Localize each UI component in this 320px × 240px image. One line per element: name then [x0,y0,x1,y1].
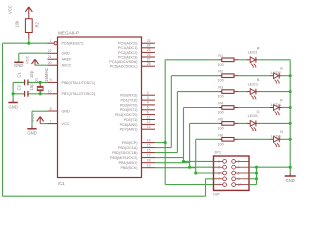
svg-text:GND: GND [14,63,23,68]
svg-text:14: 14 [147,138,151,142]
svg-text:27: 27 [147,57,151,61]
svg-text:G: G [256,109,259,114]
svg-text:LED2: LED2 [271,70,282,75]
svg-text:B: B [280,129,283,134]
pin 11 PD5(T1) [124,115,155,122]
pin 5 PD3(INT1) [120,106,155,113]
LED LED6 B [270,129,283,147]
pin 21 AREF [48,55,73,62]
svg-text:GND: GND [27,130,36,135]
svg-text:PB1(OC1A): PB1(OC1A) [118,146,137,150]
resistor R3 100 [218,86,239,99]
svg-text:PD5(T1): PD5(T1) [124,118,138,122]
svg-text:100: 100 [218,142,224,146]
pin 7 VCC [48,119,70,126]
node MOSI junction [182,160,185,163]
wire AVCC to VCC [35,64,48,66]
svg-text:24: 24 [147,44,151,48]
wire LED3 cathode to bus [258,91,291,93]
capacitor C2 15p [16,83,34,97]
svg-text:B: B [257,77,260,82]
wire MOSI tap to ISP pin1 [184,158,214,162]
wire PB5 to R6 row [155,139,219,167]
svg-text:C1: C1 [16,72,21,78]
pin 19 PB5(SCK) [120,164,155,171]
svg-text:100: 100 [218,126,224,130]
node bus junction row 4 [289,106,292,109]
svg-text:PC4(ADC4/SDA): PC4(ADC4/SDA) [109,60,137,64]
svg-text:100: 100 [218,111,224,115]
wire LED5 cathode to bus [258,122,291,124]
svg-text:100: 100 [218,95,224,99]
svg-text:PC6(RESET): PC6(RESET) [62,42,84,46]
wire MISO tap to ISP pin3 [190,163,214,168]
svg-text:17: 17 [147,153,151,157]
svg-text:15p: 15p [29,70,34,78]
pin 4 PD2(INT0) [120,101,155,108]
node C2 ground junction [12,92,15,95]
wire LED2 cathode to bus [281,75,290,77]
svg-text:IC1: IC1 [58,181,65,186]
LED LED5 G [247,109,260,131]
pin 15 PB1(OC1A) [118,143,155,150]
svg-text:1: 1 [50,39,52,43]
svg-text:20: 20 [48,61,52,65]
svg-text:PD0(RXD): PD0(RXD) [120,94,137,98]
node bus junction row 5 [289,122,292,125]
svg-text:VCC: VCC [30,114,35,123]
LED LED4 R [270,97,283,115]
wire R6 to LED6 [238,138,270,140]
wire reset net left edge [2,43,4,196]
wire R3 to LED3 [238,91,247,93]
svg-text:VCC: VCC [24,55,29,64]
svg-text:PC2(ADC2): PC2(ADC2) [118,51,137,55]
svg-text:2: 2 [147,91,149,95]
wire LED6 cathode to bus [281,138,290,140]
pin 24 PC1(ADC1) [118,44,155,51]
pin 10 PB7(XTAL2/TOSC2) [48,90,96,97]
svg-text:PB4(MISO): PB4(MISO) [119,161,138,165]
wire pin8 to ground [32,111,48,129]
pin 25 PC2(ADC2) [118,48,155,55]
svg-text:R3: R3 [218,86,223,90]
svg-text:8: 8 [50,107,52,111]
svg-text:PC1(ADC1): PC1(ADC1) [118,46,137,50]
svg-text:R2: R2 [218,70,223,74]
wire PB1 to R2 row [155,76,219,148]
pin 6 PD4(XCK/T0) [115,110,155,117]
svg-text:PB3(MOSI/OC2): PB3(MOSI/OC2) [110,156,137,160]
svg-text:PD1(TXD): PD1(TXD) [120,99,137,103]
node XTAL2 crystal junction [39,92,42,95]
svg-text:4: 4 [147,101,149,105]
resistor R6 100 [218,133,239,146]
svg-text:G: G [280,66,283,71]
svg-text:10: 10 [238,183,242,187]
wire XTAL1 net [13,81,47,83]
svg-text:PD4(XCK/T0): PD4(XCK/T0) [115,113,138,117]
LED LED2 G [270,66,283,84]
svg-text:GND: GND [62,52,71,56]
node ISP gnd junction 1 [255,166,258,169]
pin 12 PD6(AIN0) [120,120,155,127]
svg-text:21: 21 [48,55,52,59]
resistor R4 100 [218,102,239,115]
svg-text:R: R [257,45,260,50]
svg-text:28: 28 [147,62,151,66]
svg-text:16: 16 [147,148,151,152]
node XTAL1 crystal junction [39,81,42,84]
ground GND (crystal) [8,103,17,110]
LED LED3 B [247,77,260,99]
svg-text:PB7(XTAL2/TOSC2): PB7(XTAL2/TOSC2) [62,92,96,96]
pin 9 PB6(XTAL1/TOSC1) [48,78,96,85]
pin 16 PB2(SS/OC1B) [112,148,155,155]
pin 14 PB0(ICP) [122,138,155,145]
pin 13 PD7(AIN1) [120,125,155,132]
svg-text:9: 9 [50,78,52,82]
wire PB2 to R3 row [155,92,219,153]
pin 3 PD1(TXD) [120,96,155,103]
node bus junction row 3 [289,90,292,93]
svg-text:R1: R1 [218,54,223,58]
wire R1 to LED1 [238,59,247,61]
svg-text:GND: GND [8,104,17,109]
svg-text:2: 2 [238,160,240,164]
svg-text:4: 4 [238,166,240,170]
svg-text:PD3(INT1): PD3(INT1) [120,108,138,112]
svg-text:1: 1 [218,160,220,164]
svg-text:6: 6 [238,171,240,175]
pin 17 PB3(MOSI/OC2) [110,153,155,160]
svg-text:5: 5 [147,106,149,110]
resistor R2 100 [218,70,239,83]
pin 8 GND [48,107,71,114]
svg-text:PD2(INT0): PD2(INT0) [120,103,138,107]
svg-text:5: 5 [218,171,220,175]
node bus junction row 6 [289,138,292,141]
svg-text:R4: R4 [218,102,223,106]
IC IC1 MEGA8-P [58,31,142,186]
wire PB3 to R4 row [155,108,219,158]
svg-text:JP1: JP1 [214,150,222,155]
svg-text:10: 10 [48,90,52,94]
wire R2 to LED2 [238,75,270,77]
wire pin7 to VCC [40,123,47,125]
svg-text:GND: GND [286,178,295,183]
wire R5 to LED5 [238,122,247,124]
svg-text:PB5(SCK): PB5(SCK) [120,166,137,170]
svg-text:R2: R2 [34,21,39,27]
wire reset net riser to ISP [206,179,214,196]
node bus junction row 2 [289,74,292,77]
node reset junction [27,42,30,45]
wire PB4 to R5 row [155,123,219,162]
ground stub (LED bus) [289,173,291,176]
svg-text:18: 18 [147,159,151,163]
svg-text:VCC: VCC [7,5,12,14]
ground GND (pin8) [27,129,36,136]
wire pin22 to ground [19,53,48,61]
wire SCK tap to ISP pin5 [196,168,214,173]
svg-text:25: 25 [147,48,151,52]
svg-text:100: 100 [218,63,224,67]
svg-text:MEGA8-P: MEGA8-P [58,31,79,36]
svg-text:3: 3 [147,96,149,100]
svg-text:PC5(ADC5/SCL): PC5(ADC5/SCL) [110,65,138,69]
svg-text:PD7(AIN1): PD7(AIN1) [120,128,138,132]
svg-text:PB6(XTAL1/TOSC1): PB6(XTAL1/TOSC1) [62,81,96,85]
capacitor C1 15p [16,70,34,85]
svg-text:16MHz: 16MHz [44,68,49,82]
wire ISP ground pins [249,167,290,184]
svg-text:7: 7 [218,177,220,181]
pin 18 PB4(MISO) [119,159,155,166]
LED LED1 R [247,45,260,67]
wire reset net bottom [3,195,206,197]
pin 26 PC3(ADC3) [118,53,155,60]
svg-text:7: 7 [50,119,52,123]
svg-text:PB0(ICP): PB0(ICP) [122,141,138,145]
pin 20 AVCC [48,61,72,68]
node bus gnd junction [289,166,292,169]
svg-text:AREF: AREF [62,58,73,62]
svg-text:ISP: ISP [213,192,220,197]
resistor R1 100 [218,54,239,67]
svg-text:PC3(ADC3): PC3(ADC3) [118,55,137,59]
svg-text:15: 15 [147,143,151,147]
crystal Q1 16MHz [34,68,49,94]
svg-text:R: R [280,97,283,102]
svg-text:VCC: VCC [62,122,70,126]
wire reset net R2 to pin1 [28,39,30,44]
pin 1 PC6(RESET) [48,39,84,46]
node SCK junction [194,171,197,174]
power VCC (reset pullup) [7,5,32,19]
svg-text:3: 3 [218,166,220,170]
svg-text:R5: R5 [218,117,223,121]
svg-text:6: 6 [147,110,149,114]
power VCC (pin7) [30,114,44,124]
svg-text:22: 22 [48,49,52,53]
power VCC (AVCC) [24,55,38,65]
svg-text:PB2(SS/OC1B): PB2(SS/OC1B) [112,151,137,155]
svg-text:13: 13 [147,125,151,129]
wire R4 to LED4 [238,107,270,109]
svg-text:PC0(ADC0): PC0(ADC0) [118,42,137,46]
svg-text:LED6: LED6 [271,134,282,139]
node ISP gnd junction 3 [255,177,258,180]
pin 23 PC0(ADC0) [118,39,155,46]
pin 2 PD0(RXD) [120,91,155,98]
svg-text:12: 12 [147,120,151,124]
wire reset net horizontal [3,42,48,44]
pin 22 GND [48,49,71,56]
svg-text:Q1: Q1 [34,77,39,83]
svg-text:GND: GND [62,109,71,113]
svg-text:19: 19 [147,164,151,168]
wire LED ground bus [289,60,291,173]
svg-text:26: 26 [147,53,151,57]
svg-text:11: 11 [147,115,151,119]
svg-text:9: 9 [218,183,220,187]
svg-text:LED4: LED4 [271,102,282,107]
ground GND (LED bus) [285,176,296,183]
wire LED4 cathode to bus [281,107,290,109]
connector JP1 ISP header [213,150,249,197]
node MISO junction [188,166,191,169]
svg-text:10k: 10k [14,20,19,28]
svg-text:23: 23 [147,39,151,43]
svg-text:PD6(AIN0): PD6(AIN0) [120,123,138,127]
svg-text:100: 100 [218,79,224,83]
resistor R2 10k [14,19,39,39]
svg-text:8: 8 [238,177,240,181]
svg-text:C2: C2 [16,84,21,90]
svg-text:AVCC: AVCC [62,64,72,68]
pin 28 PC5(ADC5/SCL) [110,62,155,69]
wire LED1 cathode to bus [258,59,291,61]
wire PB0 tap to ISP pin9 [165,143,213,185]
svg-text:R6: R6 [218,133,223,137]
node ISP gnd junction 2 [255,171,258,174]
ground stub (crystal) [12,99,14,102]
node PB0 junction [164,141,167,144]
wire XTAL2 net [13,93,47,95]
pin 27 PC4(ADC4/SDA) [109,57,155,64]
wire PB0 to R1 row [155,60,219,143]
resistor R5 100 [218,117,239,130]
wire crystal ground bus [12,82,14,99]
ground GND (pin22) [14,61,23,68]
